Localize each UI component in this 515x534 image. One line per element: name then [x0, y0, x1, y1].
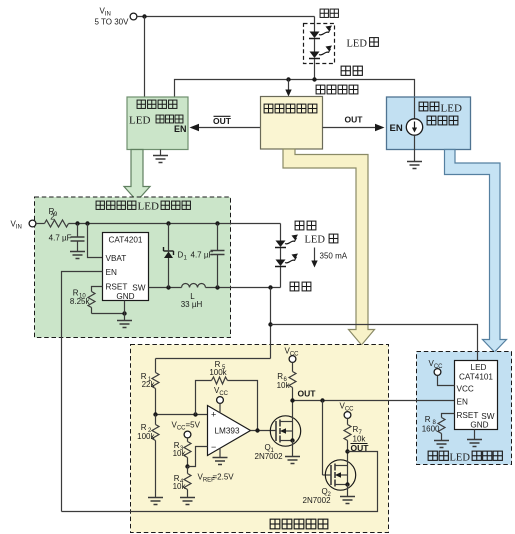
svg-text:EN: EN: [390, 123, 403, 134]
wire GND pin: [124, 301, 126, 321]
svg-text:GND: GND: [470, 421, 488, 430]
svg-text:1600: 1600: [422, 425, 440, 434]
node VCC R7: [340, 402, 355, 425]
resistor R8 1600: [422, 414, 455, 441]
resistor R7 10k: [344, 425, 366, 452]
svg-text:GND: GND: [116, 292, 134, 301]
svg-text:R: R: [141, 423, 147, 432]
bus arrow buck block to detail: [124, 150, 150, 202]
arrow 350 mA: [311, 248, 347, 268]
resistor R9: [36, 207, 69, 227]
svg-text:4.7 µF: 4.7 µF: [49, 234, 72, 243]
LED D-A of string 1: [309, 26, 332, 39]
ground R2: [148, 498, 163, 505]
title buck detail: [96, 201, 190, 213]
svg-text:VBAT: VBAT: [106, 254, 127, 263]
IC U3 CAT4101: [455, 361, 498, 430]
label LED串 string 2: [305, 234, 338, 245]
wire OUT run to linear EN: [290, 398, 454, 402]
wire buck EN run: [62, 272, 103, 512]
block logic comparator 逻辑比较器: [261, 97, 323, 150]
block buck LED driver 步进降压LED驱动器: [127, 97, 188, 150]
wire VIN to buck block: [144, 17, 146, 98]
svg-text:OUT: OUT: [298, 389, 317, 399]
wire sense arrow into comparator: [285, 80, 291, 97]
box buck driver detail 步进降压LED驱动器: [35, 197, 231, 338]
wire RSET to GND node: [92, 311, 127, 315]
wire SW rail: [149, 285, 281, 289]
box linear driver detail 线性LED驱动器: [417, 352, 512, 465]
ground under linear block: [407, 162, 422, 169]
svg-text:LED: LED: [347, 39, 368, 50]
wire cathode to CAT4101 LED pin: [271, 325, 478, 361]
IC U1 CAT4201: [103, 233, 149, 302]
svg-text:5 TO 30V: 5 TO 30V: [95, 18, 130, 27]
svg-text:RSET: RSET: [106, 283, 128, 292]
wire VIN rail in buck detail: [69, 221, 281, 225]
svg-text:10k: 10k: [173, 449, 187, 458]
ground CAT4201: [117, 321, 132, 328]
svg-text:100k: 100k: [209, 368, 227, 377]
label 电压检测 voltage detect: [316, 85, 358, 94]
svg-text:2N7002: 2N7002: [255, 452, 284, 461]
feedback resistor R5 100k: [196, 360, 258, 431]
wire OUT-bar feedback run: [62, 452, 378, 512]
label OUT-bar node: [351, 443, 370, 453]
svg-text:LED: LED: [471, 363, 487, 372]
svg-text:LED: LED: [450, 453, 471, 464]
bus arrow linear block to detail: [445, 150, 507, 353]
wire string 2 cathode: [280, 267, 282, 288]
svg-text:VIN: VIN: [11, 220, 22, 231]
svg-text:2N7002: 2N7002: [303, 496, 332, 505]
svg-text:EN: EN: [457, 398, 468, 407]
wire sense to comparator input: [156, 358, 271, 360]
label OUT-bar top: [213, 116, 232, 126]
svg-text:4.7 µF: 4.7 µF: [191, 251, 214, 260]
svg-text:LED: LED: [138, 201, 159, 213]
ground under buck block: [153, 150, 168, 163]
svg-text:LED: LED: [305, 235, 326, 246]
capacitor input 4.7uF: [49, 224, 85, 252]
label OUT node: [298, 389, 317, 399]
wire plus input node: [153, 412, 207, 416]
svg-text:EN: EN: [174, 124, 187, 134]
op-amp U2 LM393: [208, 406, 251, 456]
resistor R3 10k: [173, 441, 191, 467]
wire VBAT link: [88, 224, 103, 258]
label output cap 4.7uF: [191, 251, 214, 260]
wire OUT-bar to buck EN: [190, 124, 261, 131]
label LED string LED串: [347, 38, 379, 50]
transistor Q1 2N7002: [255, 416, 301, 461]
resistor R6 10k: [277, 372, 296, 401]
wire CAT4101 GND: [467, 430, 482, 447]
svg-text:=2.5V: =2.5V: [213, 473, 235, 482]
svg-text:=5V: =5V: [186, 421, 201, 430]
label positive terminal 正极: [320, 9, 338, 17]
svg-text:VCC: VCC: [457, 385, 474, 394]
wire voltage-sense rail: [175, 77, 415, 97]
bus arrow comparator block to detail: [283, 149, 375, 345]
svg-text:10k: 10k: [173, 482, 187, 491]
svg-text:−: −: [211, 442, 216, 452]
inductor L 33uH: [181, 284, 206, 310]
ground R4: [180, 498, 195, 505]
block linear LED driver 线性LED驱动器: [387, 97, 471, 150]
svg-text:LM393: LM393: [215, 427, 240, 436]
node VIN input terminal: [95, 7, 137, 27]
svg-text:R: R: [425, 415, 431, 424]
wire Q1 drain: [292, 401, 294, 422]
label OUT top: [345, 115, 364, 125]
label 正极 string 2: [295, 221, 316, 230]
svg-text:VIN: VIN: [100, 7, 111, 18]
svg-text:OUT: OUT: [345, 115, 364, 125]
wire between LEDs: [314, 39, 316, 52]
LED D-A of string 2: [275, 235, 298, 248]
capacitor output 4.7uF: [211, 224, 225, 288]
resistor R1 22k: [141, 359, 159, 415]
svg-text:33 µH: 33 µH: [181, 300, 203, 309]
diode D1 schottky: [164, 224, 188, 288]
wire sense from cathode: [268, 288, 272, 359]
node VCC CAT4101: [429, 359, 455, 386]
svg-text:R: R: [277, 372, 283, 381]
wire linear block to ground: [414, 135, 416, 161]
svg-text:100k: 100k: [137, 432, 155, 441]
wire Q2 gate run: [323, 401, 332, 476]
label negative terminal 负极: [341, 66, 362, 75]
svg-text:350 mA: 350 mA: [320, 252, 348, 261]
wire Q2 source to ground: [340, 485, 355, 504]
svg-text:LED: LED: [129, 115, 150, 127]
label 负极 string 2: [290, 282, 311, 291]
wire minus input: [185, 447, 207, 469]
wire OUT to linear EN: [323, 124, 385, 131]
svg-text:RSET: RSET: [457, 411, 479, 420]
svg-text:EN: EN: [106, 268, 117, 277]
VCC pin op-amp: [214, 386, 229, 413]
wire Q2 drain to OUT-bar: [345, 449, 349, 465]
box logic comparator detail 逻辑比较器: [131, 345, 389, 533]
wire to LED string anode: [314, 17, 316, 32]
resistor R2 100k: [137, 415, 159, 498]
svg-text:+: +: [211, 410, 216, 420]
svg-text:2: 2: [50, 213, 55, 222]
label VREF 2.5V: [198, 473, 235, 484]
svg-text:22k: 22k: [142, 380, 156, 389]
svg-text:CAT4101: CAT4101: [459, 373, 493, 382]
ground op-amp: [213, 448, 228, 465]
current source symbol in linear block: [406, 98, 422, 136]
node VIN detail terminal: [11, 220, 36, 231]
svg-text:CAT4201: CAT4201: [109, 236, 143, 245]
wire comparator output: [251, 428, 277, 432]
LED D-B of string 1: [309, 46, 332, 59]
svg-text:10k: 10k: [277, 381, 291, 390]
svg-text:OUT: OUT: [213, 116, 232, 126]
ground R8: [434, 441, 449, 448]
wire Q1 source to ground: [285, 441, 300, 464]
resistor R10 8.25k: [70, 287, 103, 314]
ground input cap: [70, 252, 85, 259]
wire VIN top rail: [137, 14, 315, 18]
wire LED string cathode: [314, 59, 316, 80]
title comparator detail: [270, 519, 328, 529]
svg-text:8.25k: 8.25k: [70, 297, 91, 306]
title linear detail: [428, 451, 502, 463]
transistor Q2 2N7002: [303, 460, 356, 505]
LED D-B of string 2: [275, 254, 298, 267]
wire between LEDs string 2: [280, 248, 282, 260]
resistor R4 10k: [173, 467, 191, 498]
wire to LED string 2 anode: [280, 224, 282, 241]
svg-text:LED: LED: [441, 103, 462, 115]
LED string 1 dashed box: [304, 24, 335, 64]
node VCC 5V source: [172, 421, 201, 442]
node VCC R6: [285, 347, 300, 372]
